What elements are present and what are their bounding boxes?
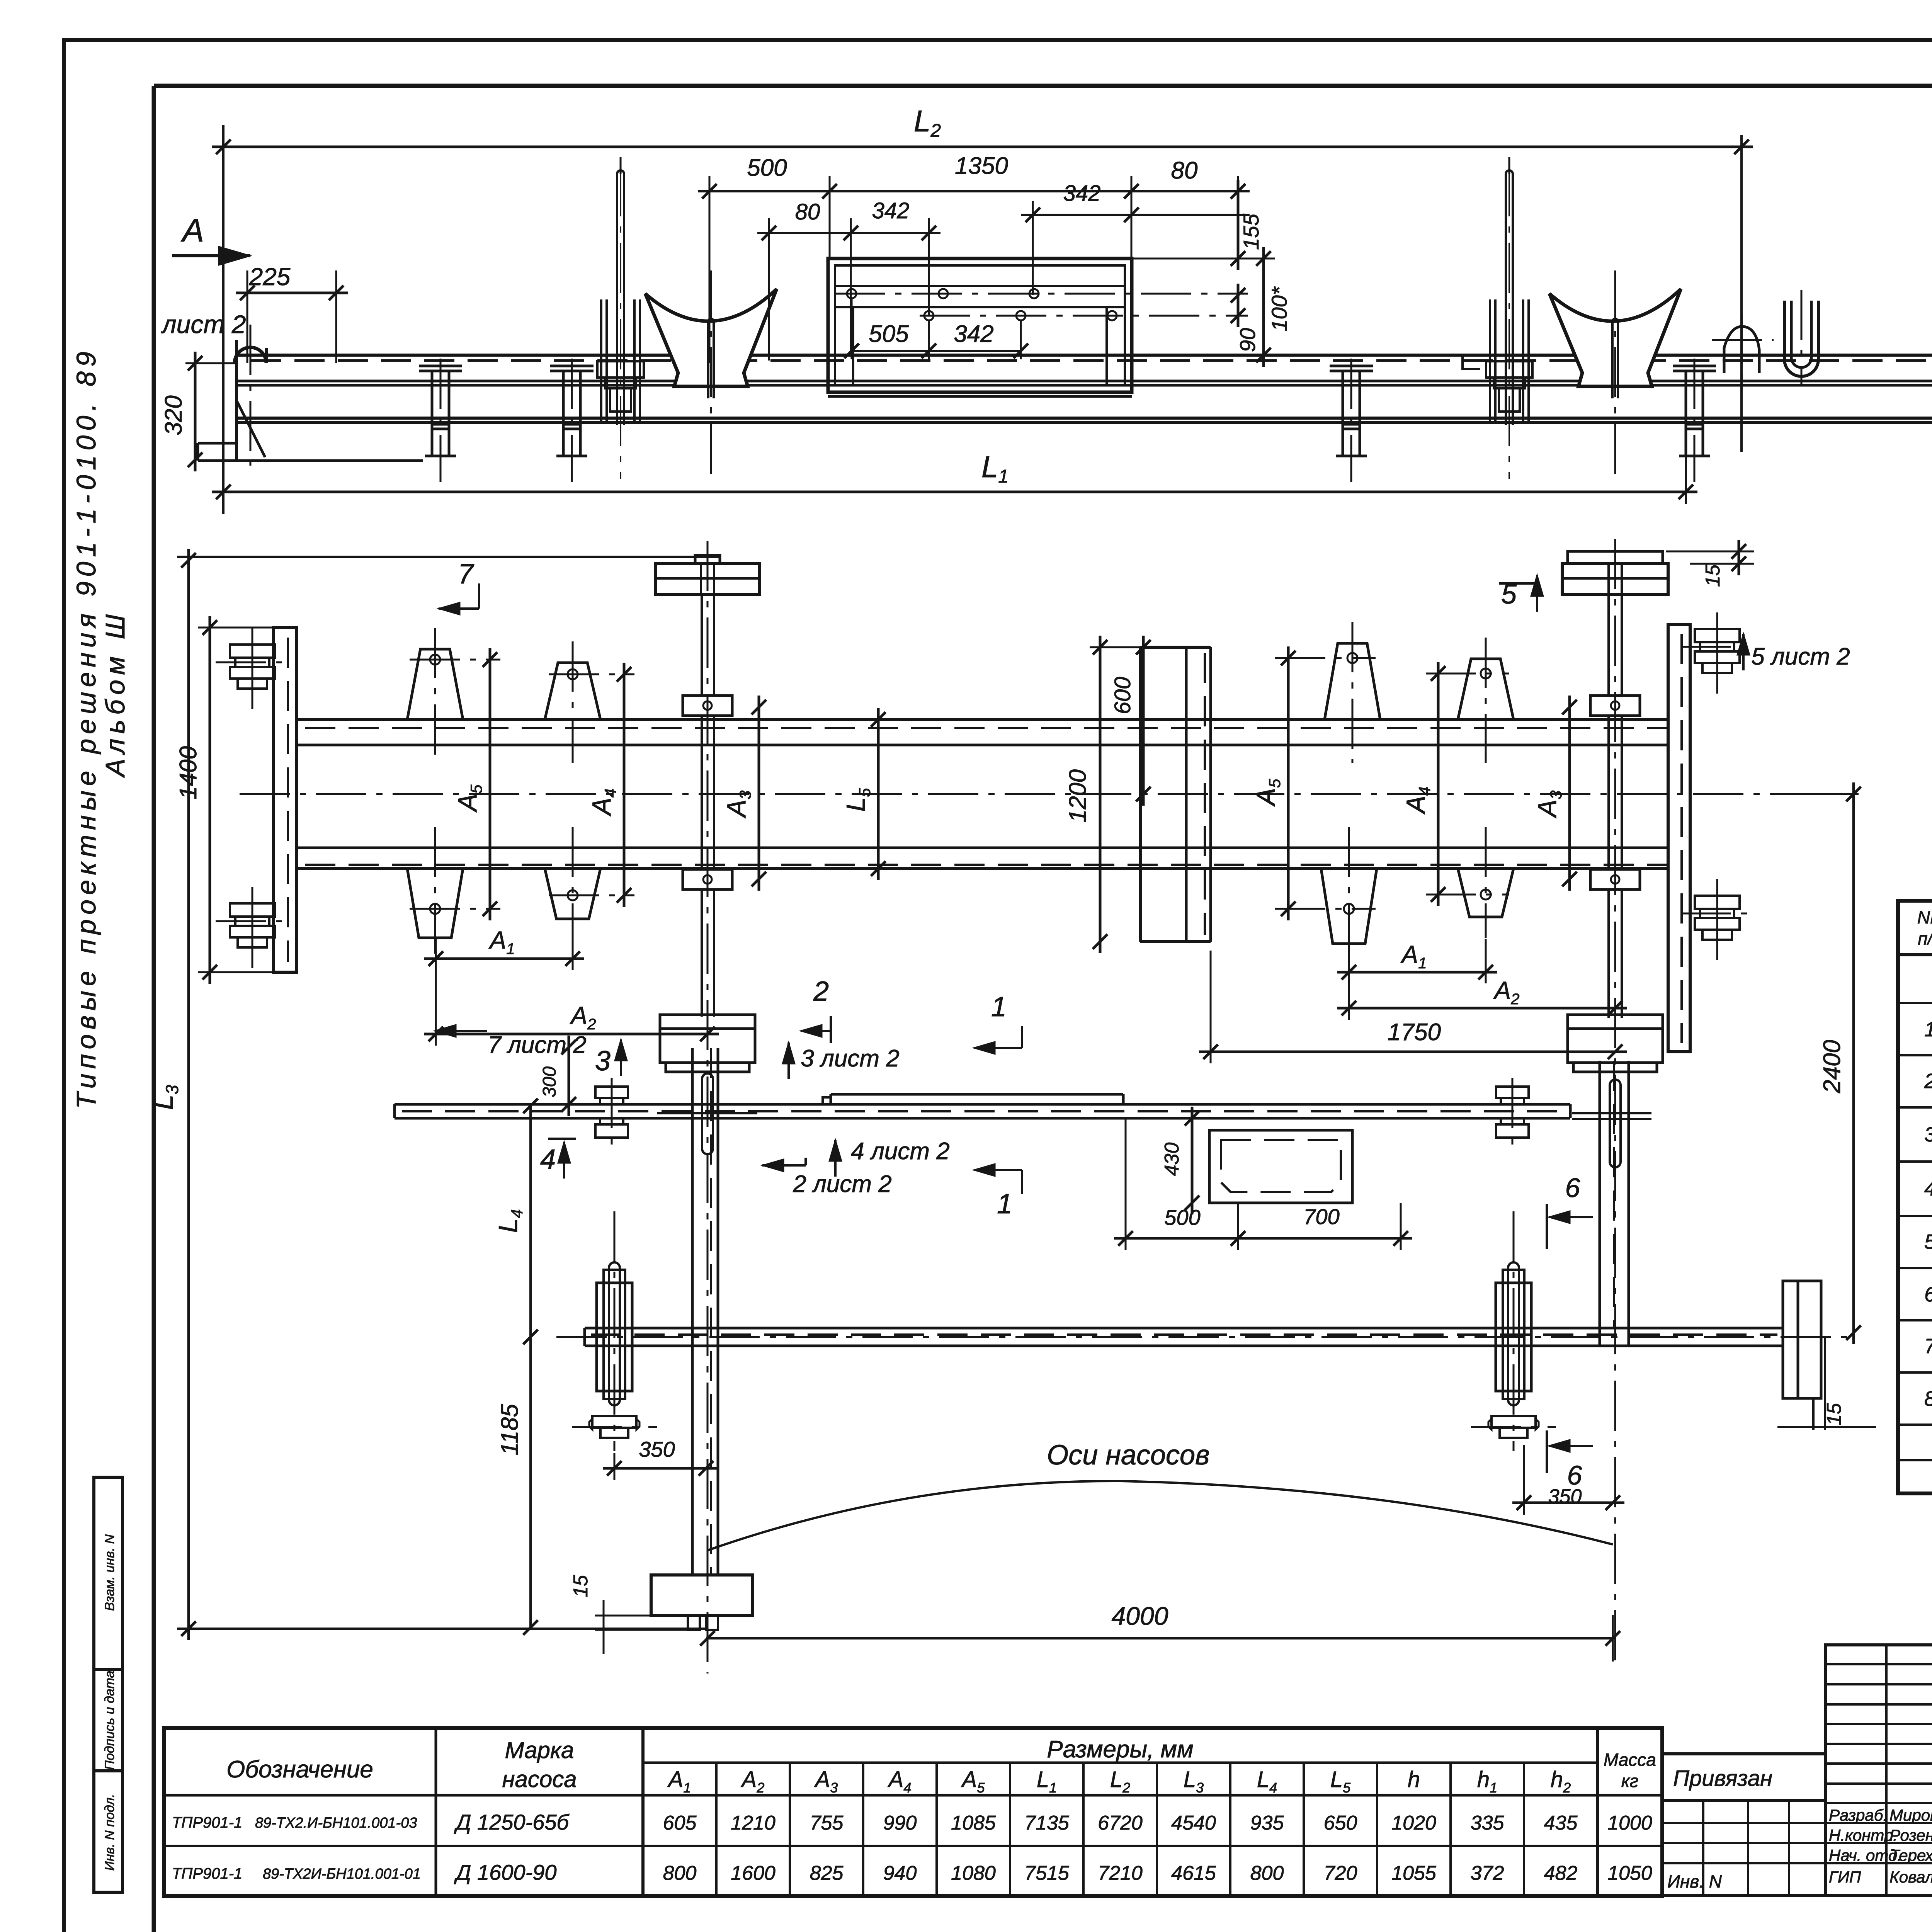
elevation: pump saddle supports	[645, 289, 777, 386]
svg-text:2: 2	[813, 976, 829, 1007]
dim 300	[568, 1036, 570, 1116]
plan: left end plate	[274, 628, 296, 972]
svg-text:Взам. инв. N: Взам. инв. N	[102, 1534, 117, 1611]
plan: dim L3	[187, 549, 190, 1640]
label 7 лист 2	[435, 1025, 456, 1037]
plan: dim A5 right	[1287, 646, 1290, 920]
svg-text:7: 7	[458, 559, 474, 590]
svg-text:500: 500	[1164, 1205, 1200, 1230]
dim 1750	[1199, 1051, 1627, 1053]
svg-text:4615: 4615	[1171, 1862, 1216, 1884]
svg-text:3 лист 2: 3 лист 2	[801, 1045, 900, 1072]
plan: crossbar rail pads	[1572, 1112, 1651, 1114]
dim 15 bottom right	[1812, 1398, 1815, 1430]
svg-text:ТПР901-1: ТПР901-1	[172, 1865, 242, 1882]
svg-text:800: 800	[1250, 1862, 1284, 1884]
dim 2400	[1852, 782, 1855, 1344]
svg-text:4 лист 2: 4 лист 2	[851, 1138, 950, 1165]
svg-text:15: 15	[1823, 1403, 1845, 1425]
svg-text:2 лист 2: 2 лист 2	[793, 1171, 892, 1197]
svg-text:1050: 1050	[1607, 1862, 1652, 1884]
svg-text:h: h	[1408, 1767, 1420, 1792]
svg-text:1: 1	[1924, 1018, 1932, 1041]
lug D4	[1458, 869, 1514, 917]
elevation dim 342 right	[1021, 214, 1250, 216]
plan: dim A5 left	[489, 648, 492, 920]
svg-text:3: 3	[595, 1046, 611, 1077]
plan: left plate bolt clusters	[230, 645, 275, 658]
lug U3	[1325, 643, 1380, 719]
svg-text:605: 605	[663, 1812, 697, 1834]
lug U4	[1458, 659, 1514, 719]
svg-text:90: 90	[1235, 328, 1260, 352]
svg-text:15: 15	[570, 1575, 592, 1597]
svg-text:89-ТХ2И-БН101.001-01: 89-ТХ2И-БН101.001-01	[263, 1866, 421, 1882]
elevation: central equipment box	[828, 259, 1132, 392]
plan: 600 vertical strip	[1139, 647, 1142, 942]
materials table frame	[1898, 901, 1932, 1493]
svg-text:800: 800	[663, 1862, 697, 1884]
svg-text:335: 335	[1471, 1812, 1505, 1834]
T-support at x=4385	[1673, 365, 1716, 367]
svg-text:350: 350	[1548, 1485, 1582, 1508]
svg-text:насоса: насоса	[502, 1766, 577, 1792]
dims 500 / 700 opening	[1114, 1237, 1412, 1240]
svg-text:990: 990	[883, 1812, 917, 1834]
plan: lower beam	[585, 1327, 1783, 1330]
svg-text:Розенблат: Розенблат	[1889, 1826, 1932, 1844]
svg-text:342: 342	[872, 198, 910, 223]
svg-text:4000: 4000	[1112, 1602, 1168, 1630]
dimension 225	[236, 292, 348, 294]
svg-text:1350: 1350	[955, 153, 1008, 179]
anchor rail right	[1568, 551, 1663, 564]
svg-text:Разраб.: Разраб.	[1829, 1806, 1888, 1824]
svg-text:4: 4	[1924, 1177, 1932, 1200]
lug U2	[545, 663, 600, 719]
svg-text:лист 2: лист 2	[161, 310, 246, 338]
svg-text:Миронычева: Миронычева	[1889, 1806, 1932, 1824]
svg-text:Обозначение: Обозначение	[226, 1756, 373, 1783]
svg-text:Марка: Марка	[505, 1737, 574, 1763]
svg-text:7515: 7515	[1024, 1862, 1070, 1884]
svg-text:Масса: Масса	[1604, 1750, 1656, 1770]
elevation: U bracket right end	[1784, 301, 1818, 376]
svg-text:1200: 1200	[1065, 769, 1091, 823]
svg-text:Привязан: Привязан	[1673, 1766, 1772, 1791]
inventory strip	[94, 1477, 122, 1892]
plan: 430x700 opening	[1209, 1130, 1352, 1203]
plan: crossbar clamp left	[595, 1087, 628, 1098]
title block: lower-left grid	[1662, 1800, 1826, 1895]
T-support at x=1140	[419, 365, 462, 367]
elevation: cam hump right	[1724, 327, 1759, 373]
svg-text:80: 80	[795, 199, 820, 224]
svg-text:6: 6	[1924, 1283, 1932, 1306]
size table frame	[164, 1728, 1662, 1896]
svg-text:NN: NN	[1917, 907, 1932, 927]
svg-text:1750: 1750	[1388, 1019, 1441, 1046]
svg-text:720: 720	[1324, 1862, 1357, 1884]
svg-text:1055: 1055	[1391, 1862, 1437, 1884]
svg-text:5 лист 2: 5 лист 2	[1751, 643, 1850, 670]
svg-text:4540: 4540	[1171, 1812, 1216, 1834]
dim A2 right	[1337, 1007, 1627, 1010]
svg-text:Н.контр.: Н.контр.	[1829, 1826, 1898, 1844]
plan: dim L5	[877, 708, 880, 880]
svg-text:6720: 6720	[1098, 1812, 1143, 1834]
svg-text:100*: 100*	[1267, 286, 1291, 331]
svg-text:кг: кг	[1621, 1771, 1638, 1791]
dim A1 right	[1337, 971, 1497, 974]
lug U1	[407, 649, 463, 719]
svg-text:6: 6	[1565, 1173, 1580, 1203]
title block: привязан box	[1662, 1754, 1826, 1800]
svg-text:8: 8	[1924, 1387, 1932, 1410]
anchor rod cluster at x=3906	[1505, 174, 1507, 425]
lug D3	[1321, 869, 1377, 944]
plan: dim A3 left	[758, 696, 760, 891]
svg-text:1000: 1000	[1607, 1812, 1652, 1834]
svg-text:435: 435	[1544, 1812, 1578, 1834]
svg-text:650: 650	[1324, 1812, 1357, 1834]
svg-text:ГИП: ГИП	[1829, 1868, 1861, 1886]
svg-text:300: 300	[539, 1066, 560, 1097]
svg-text:А: А	[180, 212, 204, 248]
svg-text:700: 700	[1303, 1204, 1339, 1229]
elevation dim 100*	[1262, 247, 1265, 367]
svg-text:Д 1250-65б: Д 1250-65б	[454, 1810, 570, 1834]
svg-text:1185: 1185	[497, 1404, 523, 1456]
svg-text:7210: 7210	[1098, 1862, 1143, 1884]
svg-text:1400: 1400	[175, 746, 202, 799]
anchor rail left	[695, 555, 720, 564]
svg-text:825: 825	[810, 1862, 844, 1884]
svg-text:7135: 7135	[1024, 1812, 1070, 1834]
svg-text:500: 500	[747, 155, 787, 181]
plan: dim A4 right	[1437, 662, 1440, 906]
title block: signature column stack	[1826, 1645, 1932, 1895]
svg-text:2400: 2400	[1819, 1040, 1845, 1094]
svg-text:430: 430	[1161, 1143, 1183, 1176]
svg-text:1: 1	[991, 992, 1007, 1022]
svg-text:1080: 1080	[951, 1862, 996, 1884]
dim A2 left	[424, 1033, 719, 1036]
dim 350 right	[1512, 1502, 1624, 1504]
plan: dim A4 left	[623, 663, 626, 907]
plan: dim 600	[1142, 636, 1145, 806]
dim A1 left	[424, 957, 584, 960]
sheet inner frame	[152, 86, 156, 1932]
svg-text:2: 2	[1924, 1070, 1932, 1093]
svg-text:755: 755	[810, 1812, 844, 1834]
lug D2	[545, 869, 600, 919]
svg-text:155: 155	[1239, 213, 1263, 250]
anchor rail left bottom plate	[651, 1575, 752, 1616]
svg-text:1: 1	[997, 1189, 1012, 1219]
svg-text:80: 80	[1171, 157, 1198, 184]
elevation: deck joint notch	[1430, 355, 1480, 369]
svg-text:342: 342	[954, 321, 993, 347]
plan: upper main beam (paired channels)	[296, 718, 1668, 721]
svg-text:1085: 1085	[951, 1812, 996, 1834]
elevation dim 80 / 342 left	[757, 232, 940, 234]
svg-text:1020: 1020	[1391, 1812, 1436, 1834]
svg-text:ТПР901-1: ТПР901-1	[172, 1814, 242, 1831]
svg-text:Инв. N подл.: Инв. N подл.	[102, 1794, 117, 1871]
svg-text:Типовые проектные решения 901-: Типовые проектные решения 901-1-0100. 89	[71, 352, 101, 1109]
lug D1	[407, 869, 463, 938]
plan: crossbar top plate	[831, 1093, 1123, 1096]
svg-text:Подпись и дата: Подпись и дата	[102, 1670, 117, 1770]
svg-text:5: 5	[1924, 1230, 1932, 1253]
T-support at x=1480	[550, 365, 594, 367]
plan: dim 1400	[209, 616, 211, 984]
svg-text:600: 600	[1110, 677, 1135, 714]
elevation: left end channel cap	[235, 340, 238, 460]
elevation: base deck plate	[236, 354, 1932, 357]
svg-text:1600: 1600	[731, 1862, 776, 1884]
dim 4000	[706, 1637, 1614, 1639]
svg-text:320: 320	[160, 395, 187, 435]
svg-text:1210: 1210	[731, 1812, 776, 1834]
svg-text:Ковалев: Ковалев	[1889, 1868, 1932, 1886]
svg-text:940: 940	[883, 1862, 917, 1884]
dim L4	[529, 1104, 532, 1346]
svg-text:225: 225	[249, 263, 291, 291]
svg-text:15: 15	[1702, 564, 1724, 587]
dim 350 left	[603, 1467, 718, 1470]
plan: middle crossbar	[395, 1103, 1570, 1106]
elevation dim 155	[1237, 180, 1240, 270]
svg-text:505: 505	[869, 321, 909, 347]
svg-text:3: 3	[1924, 1123, 1932, 1146]
T-support at x=3497	[1330, 365, 1373, 367]
plan: lower beam end disc	[1783, 1281, 1798, 1398]
dim 15 top right	[1738, 540, 1740, 575]
svg-text:4: 4	[540, 1144, 556, 1175]
svg-text:89-ТХ2.И-БН101.001-03: 89-ТХ2.И-БН101.001-03	[255, 1815, 417, 1831]
elevation: dimension L2	[212, 146, 1753, 148]
elevation: dimension L1	[212, 491, 1697, 493]
svg-text:350: 350	[639, 1437, 675, 1461]
svg-text:Размеры, мм: Размеры, мм	[1047, 1736, 1193, 1763]
dim 430	[1191, 1107, 1194, 1214]
svg-text:Терехов: Терехов	[1889, 1846, 1932, 1864]
svg-text:Инв. N: Инв. N	[1667, 1871, 1722, 1891]
svg-text:7: 7	[1924, 1335, 1932, 1358]
dimension 320	[194, 352, 197, 471]
plan: right end plate	[1668, 624, 1690, 1052]
plan: dim A3 right	[1568, 696, 1571, 891]
svg-text:482: 482	[1544, 1862, 1578, 1884]
label 4 лист 2	[834, 1140, 837, 1177]
plan: lug centre leader lines	[410, 659, 500, 661]
axis leader curve	[708, 1481, 1613, 1550]
svg-text:935: 935	[1250, 1812, 1284, 1834]
plan: dim 1200	[1099, 636, 1102, 953]
svg-text:Д 1600-90: Д 1600-90	[454, 1860, 557, 1884]
svg-text:342: 342	[1063, 181, 1101, 206]
elevation top dims 500 / 1350 / 80	[698, 190, 1250, 192]
elevation box dims 505 / 342	[852, 350, 1021, 352]
dim 1185	[529, 1337, 532, 1629]
svg-text:Оси насосов: Оси насосов	[1047, 1440, 1209, 1471]
svg-text:372: 372	[1471, 1862, 1504, 1884]
elevation dim 90	[1237, 284, 1240, 327]
svg-text:п/п: п/п	[1918, 929, 1932, 949]
plan: lower beam clamps	[597, 1283, 632, 1391]
anchor rod cluster at x=1606	[616, 174, 618, 425]
label 3 лист 2	[787, 1043, 790, 1079]
